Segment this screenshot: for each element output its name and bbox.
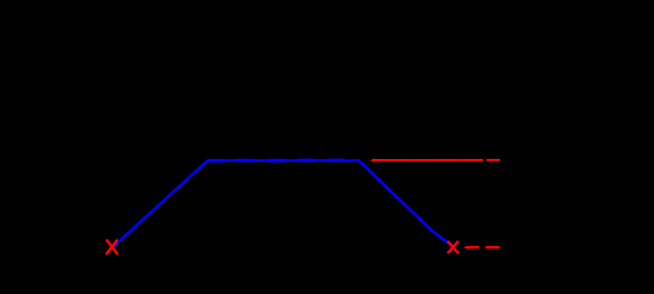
wire: blue trajectory polyline (rise, cruise, fall) <box>115 160 452 245</box>
wire: top red dashed line at cruise level <box>373 159 501 162</box>
wire: thicker dashed overlay on cruise segment (xkcd thick/thin look) <box>208 159 359 163</box>
node: red X marker at end point <box>448 242 458 253</box>
wire: bottom red dashed line at end level <box>467 246 500 249</box>
arrowhead of top red annotation line <box>370 158 375 162</box>
node: red X marker at start point <box>107 240 118 253</box>
arrowhead of bottom red annotation line <box>464 246 468 250</box>
